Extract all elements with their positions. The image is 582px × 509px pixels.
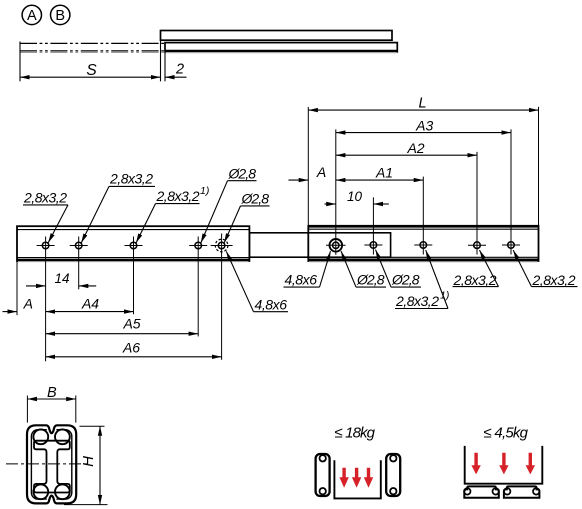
ball top-left (33, 429, 48, 444)
load icon 2 red arrow 2 (499, 453, 508, 475)
svg-text:A3: A3 (415, 117, 433, 133)
slot R1 (4,8x6 with hole 2,8) (326, 239, 346, 252)
view marker B (51, 5, 70, 24)
middle view: inner rail (right) (308, 226, 538, 262)
hole L1 (slot 2,8x3,2) (37, 237, 55, 362)
svg-text:H: H (80, 456, 97, 467)
svg-text:≤ 4,5kg: ≤ 4,5kg (484, 425, 529, 442)
svg-text:A5: A5 (122, 316, 140, 332)
svg-text:S: S (86, 62, 97, 79)
svg-text:10: 10 (347, 189, 363, 204)
ball bottom-left (33, 484, 48, 499)
hole R4 (slot 2,8x3,2) (468, 242, 486, 249)
top view: phantom line lower (extended position) (20, 51, 165, 53)
hole R3 (slot 2,8x3,2 note 1) (414, 242, 432, 249)
label Ø2,8 (hole L5) (224, 191, 269, 243)
svg-text:B: B (47, 385, 57, 401)
middle view: intermediate rail (249, 233, 390, 257)
load icon 1 right rail (386, 454, 400, 496)
svg-text:Ø2,8: Ø2,8 (391, 272, 420, 288)
ball bottom-right (55, 484, 70, 499)
svg-text:2,8x3,2: 2,8x3,2 (532, 272, 576, 288)
cross-section inner liner (31, 428, 71, 502)
label 2,8x3,2 (hole R5) (513, 250, 577, 288)
svg-text:A6: A6 (122, 339, 140, 355)
svg-text:A: A (23, 296, 33, 312)
label 2,8x3,2 (hole R4) (453, 250, 499, 288)
load icon 1 red arrow 3 (364, 468, 373, 488)
dimension A1 (336, 164, 424, 254)
label Ø2,8 (slot R1 inner hole) (341, 251, 386, 288)
load icon 1 red arrow 2 (352, 468, 361, 488)
label 4,8x6 (hidden slot, left rail) (226, 251, 288, 312)
dimension A2 (336, 140, 477, 255)
dimension A5 (46, 316, 199, 334)
svg-text:2,8x3,2: 2,8x3,2 (109, 171, 153, 187)
svg-text:2,8x3,2: 2,8x3,2 (395, 293, 439, 309)
label 2,8x3,2 1) (hole L3) (136, 185, 209, 243)
svg-text:A4: A4 (81, 296, 99, 312)
load icon 2 red arrow 3 (526, 453, 535, 475)
svg-text:14: 14 (54, 271, 69, 286)
svg-text:Ø2,8: Ø2,8 (356, 272, 385, 288)
dimension B (27, 385, 75, 423)
load icon 1 label (335, 425, 376, 442)
hole L5 (round 2,8 with hidden slot 4,8x6) (211, 234, 233, 360)
label 2,8x3,2 1) (hole R3) (395, 250, 449, 309)
load icon 1 left rail (316, 454, 330, 496)
dimension 10 (325, 189, 389, 254)
middle view: outer rail (left) (17, 226, 249, 261)
svg-text:1): 1) (200, 185, 209, 197)
label Ø2,8 (hole L4) (201, 165, 257, 243)
label Ø2,8 (hole R2) (376, 250, 422, 288)
cross-section centerline (6, 463, 88, 465)
svg-text:Ø2,8: Ø2,8 (241, 191, 270, 207)
dimension A4 (46, 296, 134, 312)
hole L4 (round 2,8) (189, 237, 207, 337)
svg-text:A1: A1 (375, 164, 393, 180)
dimension A6 (46, 339, 222, 357)
svg-text:L: L (418, 95, 426, 111)
hole R2 (round 2,8) (364, 242, 382, 249)
svg-text:2,8x3,2: 2,8x3,2 (23, 189, 67, 205)
load icon 2 red arrow 1 (471, 453, 480, 475)
svg-text:2: 2 (175, 62, 184, 78)
ball top-right (55, 429, 70, 444)
load icon 1 red arrow 1 (339, 468, 348, 488)
hole L3 (slot 2,8x3,2 note 1) (125, 237, 143, 315)
dimension 2 (rail offset) (165, 52, 187, 82)
dimension A (right) (289, 164, 327, 180)
cross-section inner rail I-beam (34, 441, 70, 493)
load icon 2 rail A (464, 486, 499, 497)
svg-text:4,8x6: 4,8x6 (285, 272, 318, 288)
load icon 2 rail B (504, 486, 540, 497)
dimension H (64, 426, 108, 504)
hole R5 (slot 2,8x3,2) (502, 242, 520, 249)
svg-text:A: A (316, 164, 326, 180)
load icon 2 drawer (465, 446, 543, 484)
load icon 1 drawer (334, 460, 380, 498)
cross-section outer contour (27, 425, 76, 503)
dimension L (308, 95, 538, 232)
svg-text:Ø2,8: Ø2,8 (228, 165, 257, 181)
label 4,8x6 (slot R1) (284, 251, 331, 287)
svg-text:B: B (55, 8, 65, 24)
svg-text:A2: A2 (406, 140, 424, 156)
label 2,8x3,2 (hole L1) (23, 189, 68, 242)
hole L2 (slot 2,8x3,2) (70, 237, 88, 290)
svg-text:2,8x3,2: 2,8x3,2 (156, 188, 200, 204)
top view: upper rail (161, 31, 393, 41)
svg-text:4,8x6: 4,8x6 (255, 297, 288, 313)
top view: lower rail (165, 43, 397, 53)
load icon 2 label (484, 425, 529, 442)
svg-text:2,8x3,2: 2,8x3,2 (453, 272, 497, 288)
dimension S (20, 40, 161, 81)
view marker A (22, 5, 41, 24)
svg-text:≤ 18kg: ≤ 18kg (335, 425, 376, 442)
label 2,8x3,2 (hole L2) (81, 171, 155, 244)
dimension A3 (336, 117, 511, 255)
top view: phantom line upper (extended position) (20, 42, 165, 44)
dimension A (left) (3, 261, 33, 315)
dimension 14 (26, 271, 96, 286)
svg-text:A: A (27, 8, 37, 24)
